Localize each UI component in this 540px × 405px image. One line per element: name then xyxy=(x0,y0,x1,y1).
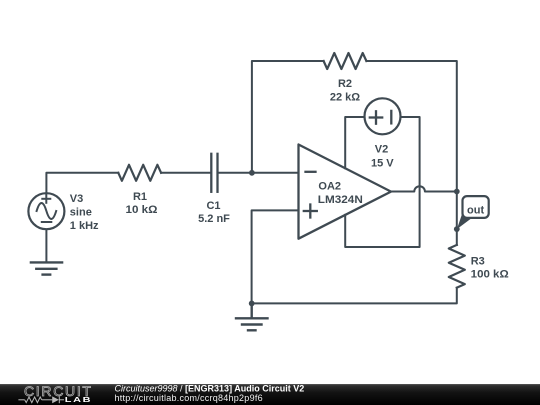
svg-text:out: out xyxy=(467,204,484,216)
svg-text:V2: V2 xyxy=(375,144,388,156)
wire V2 minus terminal to op-amp V- pin xyxy=(345,117,419,247)
svg-text:OA2: OA2 xyxy=(318,181,341,193)
node junction at output xyxy=(454,189,460,195)
resistor R1 xyxy=(118,165,161,181)
op-amp OA2 triangle xyxy=(299,145,392,239)
svg-text:5.2 nF: 5.2 nF xyxy=(198,213,230,225)
svg-text:LAB: LAB xyxy=(65,396,93,404)
wire V3 top to R1 xyxy=(46,173,118,193)
V2 plus marker xyxy=(370,111,382,123)
svg-text:R1: R1 xyxy=(133,191,147,203)
wire R2 to output node xyxy=(366,61,456,191)
svg-text:sine: sine xyxy=(70,207,92,219)
resistor R3 xyxy=(449,245,465,288)
V3 minus marker xyxy=(42,221,52,223)
svg-text:100 kΩ: 100 kΩ xyxy=(471,269,509,281)
svg-text:http://circuitlab.com/ccrq84hp: http://circuitlab.com/ccrq84hp2p9f6 xyxy=(115,393,263,403)
voltage source V2 circle xyxy=(365,98,401,134)
voltage source V3 circle xyxy=(28,193,64,229)
wire op-amp output with hop over V2 wire xyxy=(391,186,457,191)
svg-text:R2: R2 xyxy=(338,78,352,90)
svg-text:R3: R3 xyxy=(471,255,485,267)
op-amp minus marker xyxy=(306,171,316,173)
wire R3 bottom to ground rail xyxy=(252,288,457,304)
logo schematic line with resistor and diode xyxy=(18,396,64,403)
svg-text:15 V: 15 V xyxy=(371,157,394,169)
wire op-amp non-inverting input xyxy=(252,210,299,303)
svg-text:V3: V3 xyxy=(70,193,83,205)
node junction at out flag xyxy=(454,226,460,232)
svg-text:22 kΩ: 22 kΩ xyxy=(330,92,360,104)
wire C1 to op-amp inverting input xyxy=(219,172,299,174)
V3 sine symbol xyxy=(37,203,57,219)
wire output node down to R3 xyxy=(456,192,458,245)
wire feedback vertical and top to R2 xyxy=(252,61,324,173)
node junction at bottom ground rail xyxy=(249,301,255,307)
V3 plus marker xyxy=(42,195,50,203)
ground under V3 xyxy=(31,262,62,274)
svg-text:LM324N: LM324N xyxy=(318,194,363,206)
logo diode triangle xyxy=(52,396,59,403)
out flag box xyxy=(463,196,489,218)
capacitor C1 xyxy=(211,154,217,192)
wire R1 to C1 xyxy=(161,172,210,174)
svg-text:1 kHz: 1 kHz xyxy=(70,220,99,232)
V2 bar marker xyxy=(390,111,392,124)
out flag pointer xyxy=(457,212,472,230)
op-amp plus marker xyxy=(304,205,317,218)
ground at bottom rail xyxy=(236,303,268,330)
resistor R2 xyxy=(324,53,367,69)
svg-text:10 kΩ: 10 kΩ xyxy=(126,204,158,216)
wire V3 bottom to ground xyxy=(45,230,47,263)
svg-text:C1: C1 xyxy=(206,200,220,212)
node junction at feedback and inverting input xyxy=(249,170,255,176)
wire V2 plus terminal to op-amp V+ pin xyxy=(345,117,364,168)
